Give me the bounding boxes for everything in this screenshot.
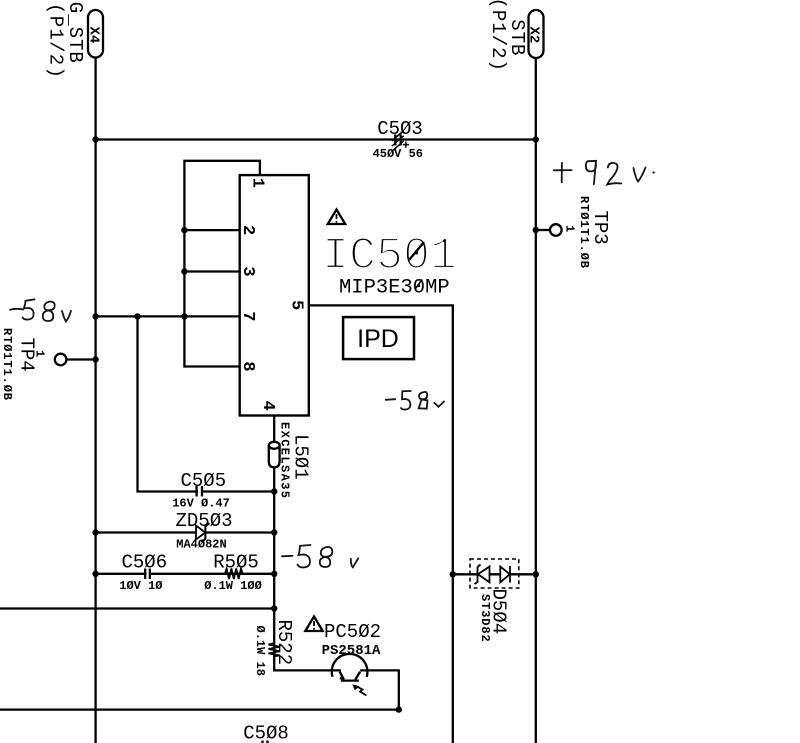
svg-text:7: 7	[238, 311, 257, 321]
svg-text:1: 1	[248, 178, 267, 188]
light arrow	[352, 684, 366, 695]
wire branch vertical and C505	[138, 316, 275, 491]
svg-text:3: 3	[238, 266, 257, 276]
node X4/pin7	[92, 313, 98, 319]
warning triangle IC501	[328, 210, 345, 225]
wire X4 vertical	[94, 58, 96, 743]
handwritten +92v	[554, 161, 654, 185]
node at X4/C503	[92, 136, 98, 142]
svg-text:ZD5Ø3: ZD5Ø3	[175, 510, 232, 532]
svg-text:8: 8	[238, 361, 257, 371]
wire pin7	[96, 315, 240, 317]
wire bus to pin8	[184, 316, 239, 366]
svg-text:C5Ø6: C5Ø6	[121, 552, 167, 574]
svg-text:MA4Ø82N: MA4Ø82N	[176, 538, 226, 552]
svg-text:Ø.1W 1ØØ: Ø.1W 1ØØ	[204, 579, 262, 593]
wire IC pin4 / L501 vertical	[274, 416, 341, 671]
resistor R505	[204, 552, 262, 594]
node L501/ZD503	[271, 529, 277, 535]
wire pin2	[184, 229, 239, 231]
wire ZD503	[96, 531, 275, 533]
svg-text:5: 5	[286, 300, 305, 310]
svg-text:R5Ø5: R5Ø5	[213, 552, 259, 574]
test point TP3	[533, 224, 562, 236]
svg-text:2: 2	[238, 225, 257, 235]
capacitor C508	[243, 723, 289, 743]
svg-text:TP3: TP3	[589, 211, 611, 245]
zener diode ZD503	[175, 510, 232, 552]
svg-text:(P1/2): (P1/2)	[45, 3, 67, 79]
node C505/L501	[271, 488, 277, 494]
wire C503 horizontal	[96, 138, 536, 140]
node bus/pin7	[181, 313, 187, 319]
inductor L501	[269, 442, 280, 468]
node bus/pin3	[181, 268, 187, 274]
connector X4	[86, 10, 103, 58]
wire C506/R505	[96, 573, 275, 575]
svg-text:(P1/2): (P1/2)	[487, 0, 509, 72]
warning triangle PC502	[305, 617, 322, 632]
handwritten -58v left	[10, 299, 71, 321]
node L501/R505	[271, 571, 277, 577]
resistor R522	[253, 620, 295, 676]
capacitor C505	[172, 470, 230, 511]
wire bottom horizontal	[0, 708, 399, 710]
wire pin3	[184, 270, 239, 272]
svg-text:R522: R522	[273, 620, 295, 666]
transistor PC502	[332, 654, 368, 681]
IPD box	[343, 317, 414, 359]
capacitor C506	[119, 552, 167, 594]
handwritten -58v center	[386, 391, 444, 410]
node X4/ZD503	[92, 529, 98, 535]
svg-text:TP4: TP4	[16, 338, 38, 372]
svg-text:L5Ø1: L5Ø1	[290, 434, 312, 480]
svg-text:MIP3E30MP: MIP3E30MP	[339, 277, 450, 300]
node bus/pin2	[181, 227, 187, 233]
svg-text:16V Ø.47: 16V Ø.47	[172, 497, 230, 511]
op-amp IC501 box	[240, 175, 309, 415]
wire PC502 right	[360, 670, 399, 709]
svg-text:Ø.1W 18: Ø.1W 18	[253, 626, 267, 676]
svg-text:IPD: IPD	[357, 325, 399, 353]
connector X2	[526, 10, 544, 58]
diode D504	[450, 559, 539, 588]
wire pin1 top	[184, 161, 260, 317]
test point TP4	[55, 354, 99, 366]
node PC502/bottom	[396, 706, 402, 712]
svg-text:EXCELSA35: EXCELSA35	[278, 422, 292, 499]
svg-text:45ØV 56: 45ØV 56	[373, 147, 423, 161]
svg-text:C5Ø8: C5Ø8	[243, 723, 289, 743]
wire pin5	[309, 305, 453, 743]
svg-text:X4: X4	[86, 27, 102, 44]
svg-text:PC5Ø2: PC5Ø2	[324, 621, 381, 643]
handwritten -58v right	[282, 545, 358, 567]
node R522 top	[271, 605, 277, 611]
svg-text:1ØV 1Ø: 1ØV 1Ø	[119, 579, 162, 593]
svg-text:ST3D82: ST3D82	[478, 594, 492, 643]
capacitor C503	[373, 118, 423, 161]
svg-text:C5Ø5: C5Ø5	[180, 470, 226, 492]
svg-text:IC501: IC501	[322, 231, 457, 282]
svg-text:RTØ1T1.ØB: RTØ1T1.ØB	[577, 196, 591, 269]
svg-text:1: 1	[563, 225, 577, 232]
node X4/C506	[92, 571, 98, 577]
svg-text:C5Ø3: C5Ø3	[377, 118, 423, 140]
svg-text:PS2581A: PS2581A	[322, 643, 381, 659]
node branch/pin7	[134, 313, 140, 319]
wire long horizontal left	[0, 607, 274, 609]
svg-text:RTØ1T1.ØB: RTØ1T1.ØB	[0, 328, 14, 401]
svg-text:4: 4	[258, 401, 277, 411]
wire X2 vertical	[535, 58, 537, 743]
node at X2/C503	[533, 136, 539, 142]
